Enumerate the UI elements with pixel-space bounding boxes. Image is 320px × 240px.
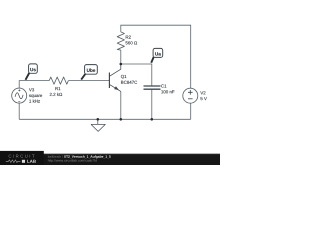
V2 plus mark	[188, 90, 193, 95]
logo LAB text	[27, 160, 36, 163]
label Q1 part	[121, 81, 137, 84]
label V2 value	[200, 97, 206, 100]
label R1 name	[55, 87, 60, 90]
wire collector node to C1 top	[121, 64, 152, 86]
label V3 type	[29, 95, 42, 98]
label R2 name	[126, 36, 131, 39]
wire R2 bottom to collector node	[120, 50, 122, 64]
resistor R1 zigzag	[49, 77, 68, 84]
wire bottom ground rail	[19, 118, 191, 120]
capacitor C1 plates	[144, 86, 161, 89]
watermark bar top highlight	[0, 153, 220, 156]
watermark author text	[48, 155, 63, 157]
transistor Q1 emitter arm	[109, 84, 120, 91]
logo CIRCUIT text	[9, 155, 35, 158]
wire C1 bottom lead	[151, 89, 153, 119]
watermark bar background	[0, 154, 220, 165]
wire top rail (R2 top to right rail)	[121, 25, 191, 88]
V2 minus mark	[188, 98, 193, 100]
logo waveform squiggle	[6, 160, 21, 163]
flag Ube text	[87, 68, 95, 71]
watermark title text	[64, 155, 111, 158]
flag Ube box	[85, 65, 98, 75]
wire V2 bottom lead	[190, 103, 192, 119]
label C1 name	[161, 84, 166, 87]
label V3 freq	[29, 99, 40, 102]
V3 sine wave symbol	[15, 93, 23, 99]
flag Ua box	[153, 48, 163, 57]
resistor R2 zigzag	[117, 32, 124, 50]
label V3 name	[29, 88, 34, 91]
wire V3 bottom lead	[18, 103, 20, 119]
wire emitter down	[120, 91, 122, 119]
junction node emitter on ground rail	[120, 118, 123, 121]
junction node ground symbol on rail	[97, 118, 100, 121]
label Q1 name	[121, 75, 126, 79]
Q1 emitter arrow	[114, 86, 119, 90]
label V2 name	[200, 91, 205, 94]
flag Ua pointer	[151, 57, 154, 63]
transistor Q1 collector arm	[109, 64, 120, 76]
label C1 value	[161, 90, 174, 93]
voltage source V2 circle	[183, 88, 198, 103]
ground symbol	[91, 119, 105, 131]
label R2 value	[126, 41, 137, 44]
junction node collector/R2/C1 wire	[120, 63, 123, 66]
label R1 value	[50, 93, 62, 96]
V3 minus mark	[18, 101, 20, 103]
wire V3 top lead to R1	[19, 81, 49, 89]
junction node C1 on ground rail	[151, 118, 154, 121]
flag Us text	[30, 68, 36, 71]
watermark url text	[48, 159, 97, 162]
flag Ua text	[155, 52, 161, 55]
wire R1 to Q1 base	[68, 80, 109, 82]
watermark logo box	[0, 151, 44, 165]
flag Us pointer	[26, 73, 30, 80]
flag Us box	[29, 64, 38, 73]
logo square	[22, 160, 25, 163]
V3 plus mark	[18, 89, 20, 91]
transistor Q1 base bar	[108, 73, 110, 89]
voltage source V3 circle	[12, 88, 27, 103]
flag Ube pointer	[81, 74, 85, 80]
